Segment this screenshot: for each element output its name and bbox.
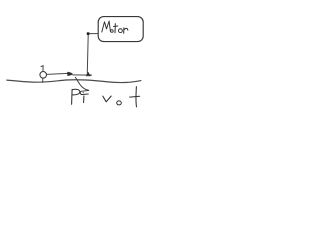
motor box	[98, 17, 143, 42]
beam arrowhead	[68, 72, 73, 76]
motor text t crossbar	[113, 25, 117, 27]
leader flag arrowhead	[80, 90, 88, 94]
Pivot text t	[135, 87, 138, 107]
Pivot text v	[103, 96, 111, 102]
beam (lever)	[47, 73, 68, 74]
Pivot text i	[83, 96, 85, 103]
motor text t	[114, 24, 116, 33]
leader line to Pivot	[75, 77, 88, 90]
motor rod	[86, 35, 89, 73]
connector line	[89, 33, 98, 35]
motor text o small	[111, 30, 114, 33]
pivot pin top tick	[41, 66, 43, 67]
pivot pin	[42, 66, 44, 83]
connector nub	[87, 32, 90, 35]
Pivot text t crossbar	[130, 95, 140, 98]
Pivot text i dot	[83, 92, 84, 93]
pivot circle	[40, 72, 47, 79]
motor text o	[119, 29, 123, 33]
ground line	[7, 80, 141, 83]
Pivot text P	[72, 89, 80, 104]
motor text r	[124, 28, 128, 33]
Pivot text o	[117, 101, 122, 105]
link segment	[73, 74, 92, 76]
motor text M	[102, 21, 111, 32]
rod foot arrowhead	[86, 72, 92, 76]
